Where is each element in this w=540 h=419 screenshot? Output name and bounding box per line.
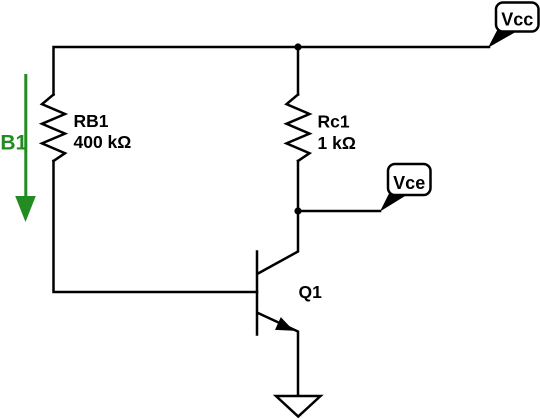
svg-text:Rc1: Rc1: [318, 112, 350, 132]
svg-text:Q1: Q1: [299, 282, 323, 302]
svg-text:1 kΩ: 1 kΩ: [318, 133, 356, 153]
svg-text:IB1: IB1: [0, 132, 28, 155]
svg-text:400 kΩ: 400 kΩ: [74, 132, 132, 152]
svg-text:Vce: Vce: [393, 173, 425, 193]
svg-text:Vcc: Vcc: [501, 9, 533, 29]
svg-text:RB1: RB1: [74, 111, 109, 131]
